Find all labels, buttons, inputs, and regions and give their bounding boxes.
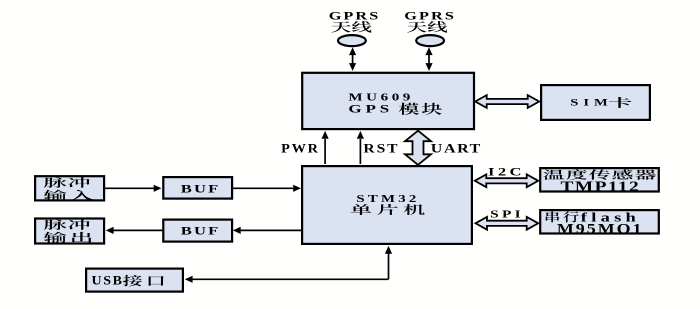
svg-text:SPI: SPI xyxy=(490,208,524,220)
buffer BUF2 xyxy=(163,220,232,242)
block pulse output xyxy=(35,219,104,244)
bus I2C hollow double arrow xyxy=(475,174,538,187)
label GPRS antenna 1 xyxy=(329,10,381,33)
antenna ellipse 1 xyxy=(338,35,366,46)
wire BUF1 to STM32 xyxy=(233,185,301,192)
bus UART hollow double arrow xyxy=(405,131,431,165)
memory serial flash M95MO1 xyxy=(540,210,659,237)
svg-text:TMP112: TMP112 xyxy=(561,178,641,194)
svg-text:BUF: BUF xyxy=(181,225,221,238)
module SIM card xyxy=(541,85,650,120)
svg-text:GPS: GPS xyxy=(348,103,393,116)
svg-text:GPRS: GPRS xyxy=(329,10,381,23)
label PWR xyxy=(281,141,320,155)
wire pulse-in to BUF1 xyxy=(105,185,162,192)
mcu STM32 xyxy=(302,166,472,244)
wire BUF2 to pulse-out xyxy=(106,227,163,234)
svg-text:SIM: SIM xyxy=(570,97,612,108)
wire RST STM32 to MU609 xyxy=(357,131,364,164)
bus SPI hollow double arrow xyxy=(476,217,539,230)
svg-text:BUF: BUF xyxy=(181,183,221,196)
svg-text:RST: RST xyxy=(363,142,399,156)
svg-text:I2C: I2C xyxy=(488,166,525,179)
svg-text:STM32: STM32 xyxy=(356,192,419,205)
wire antenna1 to MU609 double arrow xyxy=(349,47,356,71)
svg-text:MU609: MU609 xyxy=(348,90,414,103)
label I2C xyxy=(488,166,525,179)
label UART xyxy=(431,142,482,156)
svg-text:M95MO1: M95MO1 xyxy=(557,220,644,237)
label SPI xyxy=(490,208,524,220)
sensor TMP112 xyxy=(540,168,659,195)
bus MU609-SIM hollow double arrow xyxy=(475,95,539,108)
port USB interface xyxy=(86,269,183,292)
wire STM32 to BUF2 xyxy=(233,227,301,234)
wire antenna2 to MU609 double arrow xyxy=(425,47,432,71)
label GPRS antenna 2 xyxy=(404,10,456,33)
wire STM32 to USB xyxy=(185,246,392,283)
block pulse input xyxy=(35,176,104,201)
antenna ellipse 2 xyxy=(416,35,444,46)
svg-text:USB: USB xyxy=(92,273,124,287)
svg-text:GPRS: GPRS xyxy=(404,10,456,23)
buffer BUF1 xyxy=(163,177,232,199)
label RST xyxy=(363,142,399,156)
module MU609 GPS xyxy=(302,73,474,129)
wire PWR STM32 to MU609 xyxy=(322,131,329,164)
svg-text:PWR: PWR xyxy=(281,141,320,155)
svg-text:UART: UART xyxy=(431,142,482,156)
